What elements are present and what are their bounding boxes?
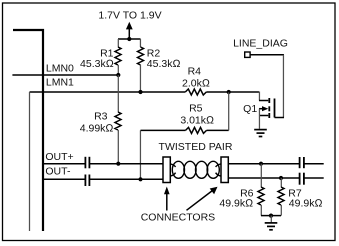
Q1 drain wire [229,91,259,93]
resistor R1 [117,39,119,47]
svg-text:Q1: Q1 [243,103,257,115]
wire LINE_DIAG to Q1 gate [250,54,284,56]
node LMN0/R1/R3 junction [116,73,120,77]
Q1 source wire [259,115,268,117]
wire LMN0 [12,74,118,76]
IC U1 (partial outline, left) [13,30,43,231]
resistor R7 [280,178,282,187]
svg-text:CONNECTORS: CONNECTORS [141,211,215,223]
svg-text:2.0kΩ: 2.0kΩ [182,77,210,89]
wire lower right [228,177,299,179]
connector box (right) [221,157,228,183]
node R6 top junction [259,162,263,166]
svg-text:3.01kΩ: 3.01kΩ [180,115,214,127]
svg-text:LMN1: LMN1 [46,76,74,88]
wire OUT- [43,178,85,180]
svg-text:R3: R3 [94,110,108,122]
capacitor C (OUT-) [85,175,89,187]
svg-text:OUT-: OUT- [45,166,71,178]
arrow to right connector [187,191,213,211]
svg-text:R5: R5 [189,103,203,115]
ground (Q1 source) [254,130,267,137]
capacitor C (OUT+) [85,157,89,169]
node OUT+/R3 junction [116,162,120,166]
resistor R5 [139,130,141,179]
svg-text:45.3kΩ: 45.3kΩ [80,58,114,70]
svg-text:49.9kΩ: 49.9kΩ [219,197,253,209]
twisted pair loops [170,161,221,178]
node OUT-/R5 junction [138,177,142,181]
Q1 gate bar [274,99,276,118]
capacitor (lower right) [300,173,304,185]
wire OUT+ [43,163,85,165]
node: supply junction [127,37,131,41]
svg-text:1.7V TO 1.9V: 1.7V TO 1.9V [98,10,161,22]
connector box (left) [163,157,170,183]
svg-text:LINE_DIAG: LINE_DIAG [233,38,288,50]
arrow to left connector [166,194,168,211]
ground (R6/R7) [270,216,272,223]
supply arrow [128,28,130,39]
resistor R2 [139,39,141,47]
svg-text:TWISTED PAIR: TWISTED PAIR [159,141,233,153]
node R6/R7 ground junction [269,214,273,218]
resistor R4 [185,89,206,95]
wire LMN1 [30,91,186,93]
resistor R6 [260,164,262,187]
capacitor (upper right) [300,157,304,168]
wire: top rail R1-R2 [118,38,141,40]
wire upper right [228,163,299,165]
LINE_DIAG terminal square [245,52,250,57]
node LMN1/R2 junction [138,90,142,94]
node R4/R5/Q1 junction [227,90,231,94]
svg-text:4.99kΩ: 4.99kΩ [80,122,114,134]
svg-text:45.3kΩ: 45.3kΩ [147,58,181,70]
svg-text:LMN0: LMN0 [46,62,74,74]
resistor R3 [117,75,119,112]
svg-text:OUT+: OUT+ [45,151,73,163]
Q1 channel segments [268,98,270,118]
svg-text:49.9kΩ: 49.9kΩ [289,197,323,209]
wire LMN1 drop (to bottom edge) [29,92,31,231]
node R7 top junction [279,176,283,180]
svg-text:R4: R4 [188,65,202,77]
Q1 bulk wire and arrow [259,108,263,110]
